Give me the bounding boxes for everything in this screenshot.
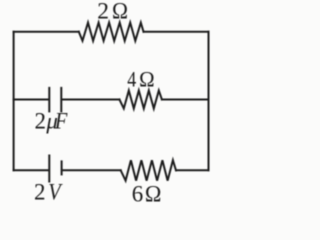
svg-text:Ω: Ω	[139, 66, 155, 91]
wire top-right lead	[144, 31, 209, 33]
resistor R3 6 ohm	[121, 160, 176, 180]
capacitor C1 right plate	[60, 88, 62, 112]
wire middle-left lead	[14, 99, 49, 101]
svg-text:2: 2	[34, 179, 46, 204]
battery B1 short plate	[61, 161, 63, 174]
resistor R2 4 ohm	[119, 91, 161, 109]
wire middle-right lead	[162, 99, 209, 101]
wire left vertical	[13, 32, 15, 171]
wire capacitor to R2	[62, 99, 120, 101]
svg-text:F: F	[54, 108, 68, 133]
svg-text:Ω: Ω	[112, 0, 128, 25]
battery B1 long plate	[48, 156, 50, 182]
resistor R1 2 ohm	[79, 23, 144, 41]
svg-text:V: V	[48, 179, 63, 204]
wire battery to R3	[62, 169, 121, 171]
wire top-left lead	[14, 31, 79, 33]
svg-text:2: 2	[97, 0, 109, 25]
svg-text:4: 4	[127, 66, 136, 91]
svg-text:2: 2	[35, 108, 47, 133]
wire right vertical	[208, 32, 210, 171]
capacitor C1 left plate	[48, 88, 50, 112]
svg-text:Ω: Ω	[145, 182, 162, 207]
wire bottom-left lead	[14, 169, 49, 171]
svg-text:6: 6	[132, 182, 144, 207]
wire bottom-right lead	[176, 169, 209, 171]
